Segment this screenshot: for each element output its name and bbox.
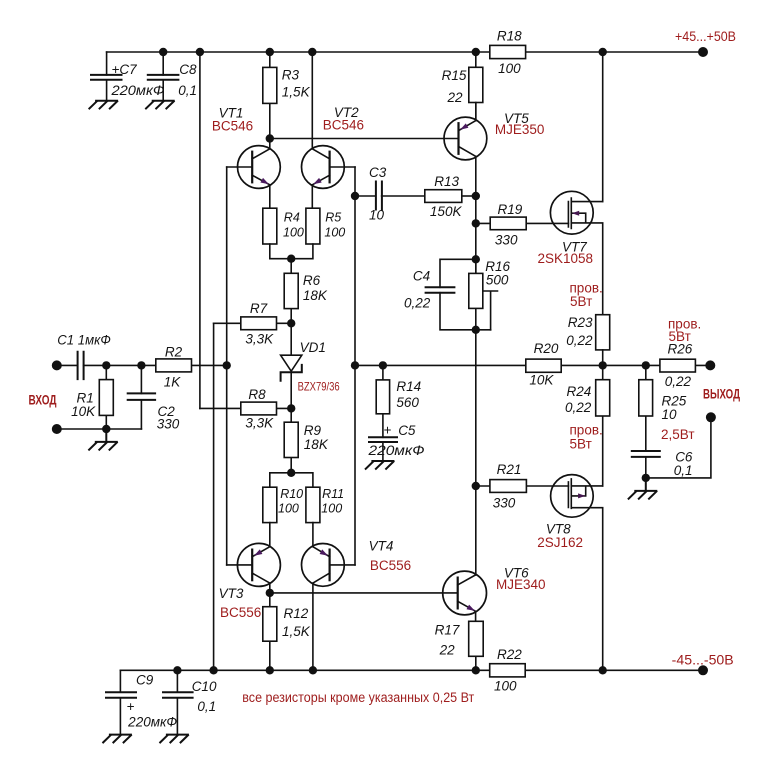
svg-text:100: 100 xyxy=(324,226,345,240)
svg-text:10: 10 xyxy=(662,407,678,422)
junction VT1 collector node xyxy=(266,134,274,142)
wire R10 R11 top junction xyxy=(270,473,313,487)
terminal -45V xyxy=(698,665,708,675)
junction bias line top rail xyxy=(196,48,204,56)
svg-text:220мкФ: 220мкФ xyxy=(127,715,177,730)
ground under C9 xyxy=(103,735,131,743)
ground under C7 xyxy=(89,101,117,109)
svg-text:C3: C3 xyxy=(369,165,387,180)
resistor R7 xyxy=(214,317,292,330)
svg-text:C10: C10 xyxy=(192,679,217,694)
terminal input hot xyxy=(52,360,62,370)
junction R1 C1 xyxy=(102,361,110,369)
junction C4 R16 top xyxy=(472,255,480,263)
capacitor C10 xyxy=(163,670,193,734)
zener diode VD1 xyxy=(281,323,302,408)
svg-text:5Вт: 5Вт xyxy=(570,437,592,452)
svg-text:R19: R19 xyxy=(498,202,523,217)
resistor R24 xyxy=(596,365,610,486)
junction C3 tap on feedback vertical xyxy=(351,192,359,200)
svg-text:0,22: 0,22 xyxy=(404,296,431,311)
svg-text:220мкФ: 220мкФ xyxy=(110,83,164,98)
junction VD1 R8 R9 xyxy=(287,404,295,412)
wire input net vertical VT1 base to VT3 base xyxy=(226,167,228,565)
resistor R19 xyxy=(476,217,569,230)
junction VT2 collector top rail xyxy=(308,48,316,56)
capacitor C5 xyxy=(369,437,397,461)
svg-text:R26: R26 xyxy=(668,341,693,356)
wire input terminal to C1 xyxy=(57,364,78,366)
ground at output xyxy=(629,478,657,499)
resistor R10 xyxy=(263,487,277,547)
svg-text:MJE340: MJE340 xyxy=(496,577,546,592)
svg-text:+: + xyxy=(383,423,391,438)
wire bias vertical from top rail to R8 xyxy=(199,52,201,408)
resistor R14 xyxy=(376,365,389,437)
svg-text:0,1: 0,1 xyxy=(178,83,197,98)
transistor VT6 xyxy=(443,571,487,615)
svg-text:VD1: VD1 xyxy=(300,340,326,355)
svg-text:C4: C4 xyxy=(413,268,430,283)
svg-text:1,5K: 1,5K xyxy=(282,85,311,100)
svg-text:R21: R21 xyxy=(497,462,522,477)
wire bottom rail right segment xyxy=(525,669,703,671)
resistor R17 xyxy=(469,611,484,670)
svg-text:R8: R8 xyxy=(248,387,266,402)
resistor R4 xyxy=(263,208,291,259)
svg-text:R23: R23 xyxy=(568,315,593,330)
junction feedback node xyxy=(351,361,359,369)
ground under R1 xyxy=(89,429,117,450)
capacitor C3 xyxy=(355,182,425,210)
svg-text:330: 330 xyxy=(157,417,180,432)
svg-text:100: 100 xyxy=(498,61,521,76)
svg-text:BC556: BC556 xyxy=(220,605,261,620)
svg-text:100: 100 xyxy=(283,226,304,240)
capacitor C7 xyxy=(91,52,122,101)
resistor R12 xyxy=(263,593,277,670)
junction VT3 collector R12 xyxy=(266,589,274,597)
capacitor C6 xyxy=(632,451,660,478)
svg-text:+45...+50В: +45...+50В xyxy=(675,29,736,44)
svg-text:18K: 18K xyxy=(303,288,328,303)
junction R13 VAS xyxy=(472,192,480,200)
junction VT8 drain bottom rail xyxy=(599,666,607,674)
mosfet VT8 xyxy=(551,475,603,518)
svg-text:R20: R20 xyxy=(534,341,559,356)
svg-text:22: 22 xyxy=(446,90,463,105)
ground under C10 xyxy=(160,735,188,743)
wire output node to R26 xyxy=(603,364,660,366)
svg-text:100: 100 xyxy=(321,502,342,516)
junction input net xyxy=(223,361,231,369)
svg-text:10K: 10K xyxy=(529,373,554,388)
svg-text:560: 560 xyxy=(396,395,419,410)
svg-text:R15: R15 xyxy=(442,68,467,83)
svg-text:пров.: пров. xyxy=(570,423,603,438)
junction VT7 drain top rail xyxy=(599,48,607,56)
wire VAS line VT5 collector to VT6 collector xyxy=(475,156,477,575)
svg-text:R11: R11 xyxy=(322,487,344,501)
junction R19 VAS xyxy=(472,219,480,227)
svg-text:все резисторы кроме указанных: все резисторы кроме указанных 0,25 Вт xyxy=(242,690,474,705)
junction output node R25 R26 xyxy=(642,361,650,369)
resistor R15 xyxy=(469,52,483,121)
resistor R3 xyxy=(263,52,277,139)
svg-text:R10: R10 xyxy=(280,487,303,501)
resistor R20 xyxy=(526,359,561,372)
junction R12 bottom rail xyxy=(266,666,274,674)
svg-text:R5: R5 xyxy=(325,211,341,225)
resistor R16 trimmer xyxy=(469,259,498,330)
wire lower input terminal to C2 xyxy=(57,428,142,430)
resistor R6 xyxy=(284,259,298,324)
mosfet VT7 xyxy=(550,191,602,234)
resistor R21 xyxy=(476,480,569,493)
svg-text:1K: 1K xyxy=(164,374,182,389)
svg-text:220мкФ: 220мкФ xyxy=(367,443,424,458)
resistor R1 xyxy=(99,365,113,429)
svg-text:+: + xyxy=(127,699,135,714)
svg-text:0,22: 0,22 xyxy=(665,374,692,389)
svg-text:2,5Вт: 2,5Вт xyxy=(661,427,695,442)
junction R15 top rail xyxy=(472,48,480,56)
junction R9 R10 R11 xyxy=(287,469,295,477)
svg-text:3,3K: 3,3K xyxy=(245,416,274,431)
capacitor C1 xyxy=(78,352,84,379)
junction C6 ground node xyxy=(642,474,650,482)
terminal output hot xyxy=(705,360,715,370)
svg-text:+C7: +C7 xyxy=(112,62,138,77)
resistor R26 xyxy=(660,359,696,372)
svg-text:R14: R14 xyxy=(396,379,421,394)
svg-text:10K: 10K xyxy=(71,404,96,419)
svg-text:18K: 18K xyxy=(304,437,329,452)
junction R21 VAS xyxy=(472,482,480,490)
svg-text:-45...-50В: -45...-50В xyxy=(672,653,734,668)
svg-text:BC546: BC546 xyxy=(212,119,253,134)
junction C2 top xyxy=(137,361,145,369)
resistor R8 xyxy=(200,402,291,415)
svg-text:ВХОД: ВХОД xyxy=(29,392,57,408)
svg-text:5Вт: 5Вт xyxy=(570,294,592,309)
svg-text:R3: R3 xyxy=(282,68,300,83)
svg-text:330: 330 xyxy=(493,496,516,511)
terminal input gnd xyxy=(52,424,62,434)
svg-text:0,22: 0,22 xyxy=(565,400,592,415)
junction R14 feedback wire xyxy=(379,361,387,369)
svg-text:150K: 150K xyxy=(430,204,463,219)
resistor R9 xyxy=(284,408,298,472)
svg-text:0,1: 0,1 xyxy=(197,699,216,714)
resistor R11 xyxy=(306,487,320,547)
terminal +45V xyxy=(698,47,708,57)
transistor VT3 xyxy=(227,543,281,593)
resistor R18 xyxy=(490,45,526,58)
svg-text:0,1: 0,1 xyxy=(674,463,693,478)
resistor R23 xyxy=(596,315,610,366)
svg-text:C9: C9 xyxy=(136,673,154,688)
svg-text:R2: R2 xyxy=(165,344,183,359)
svg-text:2SK1058: 2SK1058 xyxy=(538,251,594,266)
wire VT2 base / VT4 base vertical feedback net xyxy=(354,167,356,565)
resistor R2 xyxy=(156,359,192,372)
junction C8 top rail xyxy=(159,48,167,56)
svg-text:100: 100 xyxy=(494,678,517,693)
capacitor C2 xyxy=(128,365,155,429)
svg-text:R22: R22 xyxy=(497,647,522,662)
svg-text:330: 330 xyxy=(495,233,518,248)
wire R2 to input net xyxy=(192,364,227,366)
svg-text:500: 500 xyxy=(486,273,509,288)
terminal output gnd xyxy=(706,412,716,422)
svg-text:R24: R24 xyxy=(567,384,592,399)
svg-text:R4: R4 xyxy=(284,211,300,225)
resistor R25 xyxy=(639,365,653,451)
junction output node R23 R24 xyxy=(599,361,607,369)
resistor R22 xyxy=(490,664,526,677)
ground under C8 xyxy=(146,101,174,109)
resistor R13 xyxy=(425,190,476,203)
transistor VT2 xyxy=(302,52,356,208)
capacitor C8 xyxy=(148,52,179,101)
wire bottom rail left segment xyxy=(120,669,489,671)
svg-text:R13: R13 xyxy=(434,174,459,189)
wire C6 node to output ground terminal xyxy=(646,417,711,478)
svg-text:R7: R7 xyxy=(250,301,268,316)
wire R26 to output terminal xyxy=(695,364,710,366)
wire C1 to R2 xyxy=(84,364,156,366)
junction C10 bottom rail xyxy=(173,666,181,674)
svg-text:2SJ162: 2SJ162 xyxy=(537,535,583,550)
wire top rail right segment xyxy=(526,51,703,53)
wire VT1 collector node to VT5 base xyxy=(270,138,459,140)
junction R3 top rail xyxy=(266,48,274,56)
junction R1 bottom ground xyxy=(102,425,110,433)
wire VT8 drain bus to bottom rail xyxy=(602,508,604,670)
svg-text:3,3K: 3,3K xyxy=(245,331,274,346)
transistor VT1 xyxy=(227,139,281,209)
resistor R5 xyxy=(291,208,320,259)
capacitor C9 xyxy=(106,670,136,734)
svg-text:0,22: 0,22 xyxy=(566,333,593,348)
capacitor C4 xyxy=(426,259,491,330)
wire feedback node to R20 xyxy=(355,364,526,366)
junction R17 R22 bottom rail xyxy=(472,666,480,674)
wire VT3 collector node to VT6 base xyxy=(270,592,458,594)
transistor VT4 xyxy=(302,544,356,671)
svg-text:22: 22 xyxy=(439,642,456,657)
wire top rail left segment xyxy=(107,51,490,53)
svg-text:R12: R12 xyxy=(284,606,309,621)
wire VT7 drain bus to top rail xyxy=(602,52,604,201)
transistor VT5 xyxy=(444,103,487,160)
svg-text:ВЫХОД: ВЫХОД xyxy=(703,385,740,401)
svg-text:R6: R6 xyxy=(303,273,321,288)
junction C4 R16 bottom xyxy=(472,326,480,334)
junction R6 R7 VD1 xyxy=(287,319,295,327)
svg-text:BC546: BC546 xyxy=(323,117,364,132)
svg-text:1,5K: 1,5K xyxy=(282,624,311,639)
wire VT7 source to R23 xyxy=(602,223,604,314)
svg-text:VT3: VT3 xyxy=(219,586,244,601)
svg-text:BZX79/36: BZX79/36 xyxy=(298,379,340,393)
svg-text:R9: R9 xyxy=(304,423,322,438)
svg-text:VT4: VT4 xyxy=(369,538,394,553)
svg-text:C8: C8 xyxy=(179,62,197,77)
svg-text:C5: C5 xyxy=(398,423,416,438)
wire R20 to output node xyxy=(561,364,603,366)
svg-text:R18: R18 xyxy=(497,29,522,44)
svg-text:10: 10 xyxy=(369,208,385,223)
junction R4 R5 R6 xyxy=(287,255,295,263)
svg-text:R17: R17 xyxy=(435,623,460,638)
junction bias line bottom rail xyxy=(209,666,217,674)
wire bias vertical from R7 to bottom rail xyxy=(213,323,215,670)
svg-text:C1 1мкФ: C1 1мкФ xyxy=(57,332,111,347)
junction VT4 collector bottom rail xyxy=(309,666,317,674)
svg-text:BC556: BC556 xyxy=(370,558,411,573)
svg-text:100: 100 xyxy=(278,502,299,516)
ground under C5 xyxy=(366,461,394,469)
svg-text:MJE350: MJE350 xyxy=(495,122,545,137)
